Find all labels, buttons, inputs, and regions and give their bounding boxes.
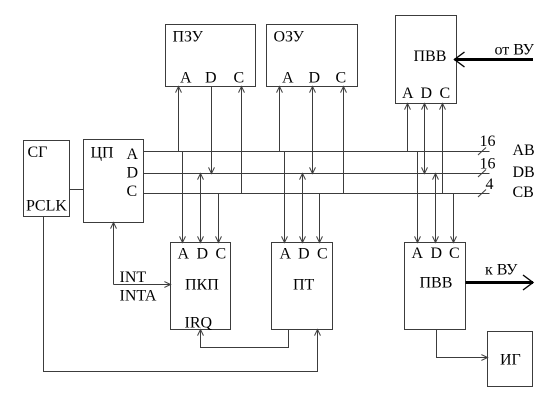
wire ПВВ1 D bidirectional DB: [424, 104, 426, 174]
block ПВВ bottom (I/O output): [405, 243, 466, 330]
svg-text:D: D: [197, 246, 209, 263]
svg-text:C: C: [127, 183, 138, 200]
wire ПВВ1 A from AB: [407, 104, 409, 152]
svg-text:CB: CB: [513, 184, 534, 201]
thick arrow к ВУ from ПВВ2: [466, 281, 534, 284]
svg-text:AB: AB: [513, 142, 535, 159]
svg-text:от ВУ: от ВУ: [495, 42, 535, 59]
svg-text:C: C: [216, 246, 227, 263]
wire INT INTA to ЦП: [113, 223, 115, 285]
wire СГ to ЦП: [70, 189, 84, 191]
wire ПЗУ A from AB: [178, 87, 180, 152]
svg-text:ИГ: ИГ: [500, 352, 521, 369]
svg-text:A: A: [412, 245, 424, 262]
wire ПВВ2 D bidirectional DB: [435, 174, 437, 243]
svg-text:INT: INT: [120, 269, 147, 286]
svg-text:ОЗУ: ОЗУ: [274, 29, 305, 46]
svg-text:A: A: [282, 70, 294, 87]
svg-text:C: C: [440, 85, 451, 102]
bus AB: [144, 151, 490, 153]
svg-text:A: A: [178, 246, 190, 263]
svg-text:D: D: [421, 85, 433, 102]
svg-text:PCLK: PCLK: [26, 198, 67, 215]
block ОЗУ (RAM): [267, 25, 358, 87]
slash on DB: [478, 170, 486, 178]
svg-text:к ВУ: к ВУ: [485, 262, 518, 279]
thick arrow от ВУ into ПВВ1: [455, 58, 534, 61]
wire ПТ D bidirectional DB: [302, 174, 304, 243]
block СГ (clock generator): [24, 141, 70, 217]
svg-text:C: C: [336, 70, 347, 87]
slash on AB: [478, 148, 486, 156]
svg-text:D: D: [309, 70, 321, 87]
block ИГ (pulse generator): [488, 332, 533, 387]
slash on CB: [478, 190, 486, 198]
wire ПЗУ D to DB: [211, 87, 213, 174]
svg-text:ЦП: ЦП: [91, 145, 115, 162]
svg-text:IRQ: IRQ: [185, 315, 213, 332]
wire ПВВ1 C from CB: [442, 104, 444, 194]
wire ОЗУ A from AB: [279, 87, 281, 152]
svg-text:C: C: [234, 70, 245, 87]
svg-text:16: 16: [480, 156, 496, 173]
svg-text:C: C: [449, 245, 460, 262]
svg-text:INTA: INTA: [120, 288, 157, 305]
wire ПКП C from CB: [218, 194, 220, 243]
wire ПВВ2 to ИГ: [437, 330, 488, 358]
wire ПТ OUT to ПКП IRQ: [201, 330, 289, 348]
svg-text:D: D: [205, 70, 217, 87]
block ЦП (CPU): [84, 140, 144, 223]
svg-text:A: A: [402, 85, 414, 102]
svg-text:ПТ: ПТ: [293, 277, 315, 294]
wire INT INTA to ПКП: [114, 284, 171, 286]
wire ПВВ2 A from AB: [417, 152, 419, 243]
svg-text:D: D: [127, 165, 139, 182]
block ПВВ top (I/O input): [396, 16, 457, 104]
svg-text:A: A: [180, 70, 192, 87]
svg-text:C: C: [317, 246, 328, 263]
bus CB: [144, 193, 490, 195]
block ПКП (interrupt controller): [171, 243, 231, 330]
svg-text:ПКП: ПКП: [185, 277, 219, 294]
svg-text:ПВВ: ПВВ: [420, 275, 453, 292]
bus DB: [144, 173, 490, 175]
svg-text:16: 16: [480, 133, 496, 150]
wire ПВВ2 C from CB: [453, 194, 455, 243]
wire ПКП A from AB: [182, 152, 184, 243]
wire ОЗУ C from CB: [343, 87, 345, 194]
wire ПТ C from CB: [319, 194, 321, 243]
svg-text:4: 4: [486, 176, 494, 193]
svg-text:A: A: [280, 246, 292, 263]
wire PCLK to ПТ clock input: [44, 217, 318, 372]
block ПТ (timer): [272, 243, 333, 330]
svg-text:ПЗУ: ПЗУ: [173, 29, 204, 46]
svg-text:D: D: [298, 246, 310, 263]
svg-text:ПВВ: ПВВ: [414, 48, 447, 65]
wire ПТ A from AB: [284, 152, 286, 243]
wire ОЗУ D bidirectional DB: [312, 87, 314, 174]
svg-text:DB: DB: [513, 164, 535, 181]
wire ПЗУ C from CB: [241, 87, 243, 194]
svg-text:A: A: [127, 146, 139, 163]
wire ПКП D bidirectional DB: [200, 174, 202, 243]
svg-text:СГ: СГ: [28, 144, 48, 161]
svg-text:D: D: [431, 245, 443, 262]
block ПЗУ (ROM): [166, 25, 256, 87]
